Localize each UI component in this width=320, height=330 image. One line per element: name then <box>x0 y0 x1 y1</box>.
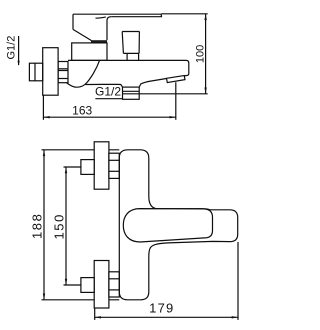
bottom connection rings <box>109 272 119 297</box>
dim line 150 <box>65 167 67 285</box>
arrow 150 bottom <box>65 279 67 285</box>
handle lever underside <box>111 14 161 17</box>
handle rear underside diagonal <box>73 29 92 40</box>
body top edge and spout tip <box>68 60 189 76</box>
wire: dim 100 top extension line <box>161 13 207 15</box>
cartridge collar band (dark) <box>91 40 107 43</box>
dim 163 left extension <box>42 95 44 120</box>
arrow 100 bottom <box>204 88 206 94</box>
arrow 188 top <box>43 150 45 156</box>
bottom rings line 2 <box>109 289 119 291</box>
dim 150 bottom extension <box>64 284 81 286</box>
bottom rings line 1 <box>109 278 119 280</box>
top connection rings <box>109 153 119 178</box>
fitting thread line 1 <box>123 90 140 92</box>
handle rear top contour curve <box>96 17 106 18</box>
nipple divider line <box>34 63 36 81</box>
top rings line 1 <box>109 159 119 161</box>
bottom inlet nipple <box>81 278 94 293</box>
arrow 179 right <box>232 316 238 318</box>
top inlet nipple <box>81 160 94 175</box>
ring line 2 <box>58 70 68 72</box>
svg-text:G1/2: G1/2 <box>6 36 18 60</box>
dim line 163 <box>43 116 175 118</box>
svg-text:188: 188 <box>29 213 44 240</box>
dim line 188 <box>43 150 45 300</box>
dim 188 top extension <box>42 149 120 151</box>
arrow 150 top <box>65 167 67 173</box>
svg-text:150: 150 <box>51 213 66 240</box>
shower outlet fitting G1/2 <box>123 87 140 99</box>
body outline (column + horizontal bar) <box>119 150 237 300</box>
dim 179 left extension <box>94 308 96 320</box>
aerator on spout tip <box>167 76 186 83</box>
top rings line 2 <box>109 170 119 172</box>
dim line 100 vertical <box>205 14 207 94</box>
handle neck front edge <box>107 17 111 41</box>
svg-text:179: 179 <box>149 300 174 315</box>
svg-text:163: 163 <box>72 103 92 117</box>
neck curve under cartridge body <box>66 60 99 87</box>
dim line 179 <box>95 316 238 318</box>
spout underside right of fitting <box>139 79 166 88</box>
diverter knob trapezoid <box>122 32 139 54</box>
wall escutcheon (top view) <box>43 48 58 95</box>
cartridge housing U1 <box>72 43 107 61</box>
connection rings block <box>58 62 68 83</box>
top wall escutcheon (front view) <box>94 142 109 189</box>
arrow 179 left <box>95 316 101 318</box>
handle lever top edge <box>73 13 161 15</box>
inlet nipple (top view) <box>29 63 42 81</box>
ring line 1 <box>58 68 68 70</box>
dim 179 right extension <box>237 242 239 320</box>
svg-text:G1/2: G1/2 <box>95 85 121 99</box>
dim 163 right extension <box>175 82 177 120</box>
label G1/2 underline (left inlet, vertical) <box>18 36 20 65</box>
leader tick at underline end <box>18 61 20 66</box>
spout underside left of fitting <box>85 84 122 87</box>
arrow 163 left <box>43 116 49 118</box>
arrow 163 right <box>170 116 176 118</box>
diverter knob stem <box>127 53 139 60</box>
dim 188 bottom extension <box>42 299 120 301</box>
lever handle (front view) <box>123 209 212 242</box>
fitting thread line 2 / dim 100 bottom extension <box>123 93 208 95</box>
bottom wall escutcheon (front view) <box>94 261 109 309</box>
ring line 3 <box>58 78 68 80</box>
svg-text:100: 100 <box>195 45 207 63</box>
arrow 188 bottom <box>43 294 45 300</box>
handle rear edge <box>72 14 74 29</box>
label G1/2 underline (spout outlet) <box>95 98 122 100</box>
dim 150 top extension <box>64 166 81 168</box>
arrow 100 top <box>204 14 206 20</box>
